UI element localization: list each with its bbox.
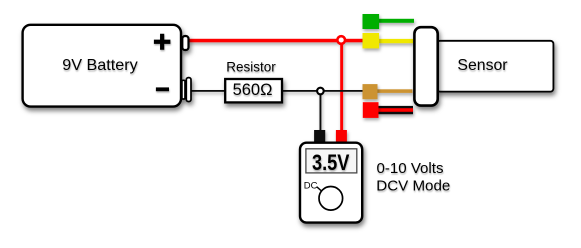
svg-text:Resistor: Resistor [226, 60, 276, 75]
svg-text:3.5V: 3.5V [312, 150, 350, 175]
svg-text:9V Battery: 9V Battery [62, 57, 138, 74]
svg-text:DCV Mode: DCV Mode [376, 178, 450, 195]
svg-text:DC: DC [304, 180, 318, 191]
svg-text:Sensor: Sensor [457, 57, 507, 74]
svg-text:560Ω: 560Ω [233, 81, 273, 99]
svg-text:0-10 Volts: 0-10 Volts [377, 160, 444, 177]
